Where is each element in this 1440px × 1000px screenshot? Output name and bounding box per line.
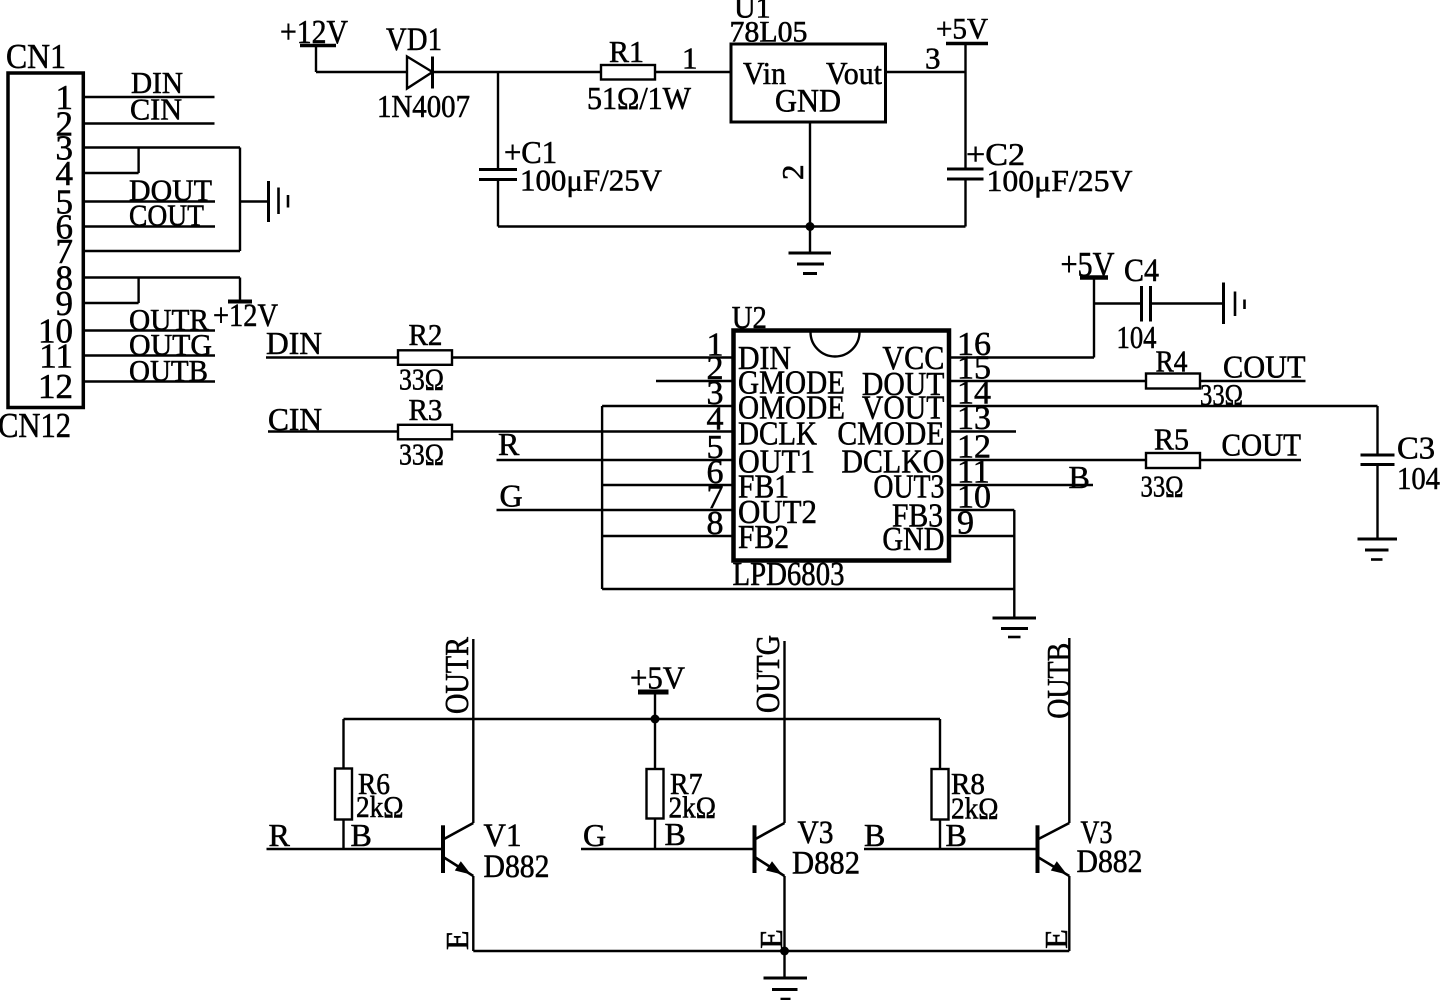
wire ground bus C1 to C2 [498,225,966,227]
node bus pins 3-6-8 [601,406,603,589]
power +12V at CN1 pin 8 [213,278,278,335]
CN1 pin 2 wire [83,122,215,124]
svg-text:D882: D882 [1077,844,1143,880]
wire +12V to diode anode [316,71,407,73]
resistor R5 [1146,453,1200,468]
resistor R7 [647,769,664,819]
wire rail to R6 [342,719,344,769]
resistor R1 [601,65,655,80]
wire rail to R7 [654,719,656,769]
wire U1 GND pin down [809,122,811,227]
CN1 pin 8 wire [83,276,240,278]
svg-text:E: E [753,929,789,949]
CN1 pin 6 wire [83,225,215,227]
CN1 pin 10 wire [83,329,215,331]
wire emitter bus [473,950,1069,952]
wire R to U2 pin 5 [497,459,734,461]
power +5V [936,13,988,73]
svg-text:1N4007: 1N4007 [377,88,470,124]
svg-text:OUTG: OUTG [750,635,787,713]
wire pins 9-10 down to bus [1013,510,1015,589]
transistor V2 [755,823,785,876]
U2 pin 16 wire [949,356,1094,358]
wire R5 to COUT [1200,459,1301,461]
resistor R2 [398,350,452,365]
wire OUTG collector [783,641,785,823]
svg-text:D882: D882 [792,846,860,882]
CN1 pin 4 wire [83,172,139,174]
resistor R8 [932,769,949,820]
svg-text:OUTB: OUTB [129,353,208,388]
svg-text:DIN: DIN [266,325,322,361]
svg-text:R3: R3 [409,392,443,427]
svg-text:2kΩ: 2kΩ [669,790,717,825]
wire R7 to base [654,819,656,850]
capacitor C3 [1361,455,1395,538]
transistor V3 [1038,823,1070,876]
wire R8 to base [939,820,941,850]
ground below U2 [993,589,1037,637]
svg-text:33Ω: 33Ω [399,437,444,472]
wire rail to R8 [939,719,941,769]
power +5V bottom [630,660,685,720]
capacitor C4 [1142,286,1224,322]
wire R input [267,848,444,850]
wire +5V rail [344,718,941,720]
CN1 pin 3 wire [83,146,240,148]
wire V1 emitter down [472,876,474,951]
wire diode cathode to R1 [433,71,602,73]
wire OUTB collector [1068,638,1070,823]
wire link pins 3-7 [239,148,241,252]
connector CN1 box [8,73,83,408]
svg-text:U2: U2 [732,299,767,335]
junction dot rail [651,715,660,724]
wire VOUT down to C3 [1376,406,1378,455]
svg-text:100μF/25V: 100μF/25V [987,163,1134,198]
svg-text:COUT: COUT [1223,349,1306,385]
wire R6 to base [342,820,344,850]
capacitor C2 [947,72,984,227]
CN1 pin 11 wire [83,354,215,356]
svg-text:R2: R2 [409,317,443,352]
wire V2 emitter down [783,876,785,951]
power +5V at VCC [1061,245,1115,358]
wire V3 emitter down [1068,876,1070,951]
CN1 pin 9 wire [83,302,139,304]
CN1 pin 5 wire [83,200,215,202]
wire B input [864,848,1038,850]
resistor R6 [335,769,352,820]
svg-text:B: B [864,817,885,853]
wire DIN to U2 pin 1 [266,356,734,358]
svg-text:G: G [500,478,523,514]
svg-text:OUTB: OUTB [1041,643,1078,719]
svg-text:GND: GND [882,521,944,558]
junction dot emitter [780,947,789,956]
U2 pin 6 wire [602,484,733,486]
svg-text:COUT: COUT [129,198,204,233]
svg-text:CIN: CIN [130,92,182,127]
U2 pin 15 wire [949,380,1146,382]
U2 pin 2 stub [656,380,734,382]
ground below C3 [1358,539,1398,560]
regulator U1 box [731,44,886,122]
svg-text:3: 3 [925,41,941,76]
U2 pin 8 wire [602,535,733,537]
svg-text:VD1: VD1 [386,22,442,58]
wire R1 to U1 Vin [655,71,731,73]
svg-text:CN12: CN12 [0,406,71,445]
svg-text:+5V: +5V [936,13,988,46]
svg-text:FB2: FB2 [738,519,789,556]
junction dot [806,222,815,231]
wire R4 to COUT [1200,380,1306,382]
svg-text:C4: C4 [1124,253,1159,289]
svg-text:R4: R4 [1156,344,1188,379]
wire +5V branch to C4 [1094,302,1142,304]
U2 pin 14 wire [949,405,1378,407]
svg-text:1: 1 [682,41,698,76]
ground right of CN1 [269,181,289,222]
svg-text:OUTR: OUTR [439,637,476,714]
transistor V1 [443,823,473,876]
svg-text:100μF/25V: 100μF/25V [520,163,663,198]
capacitor C1 [479,72,517,227]
svg-text:LPD6803: LPD6803 [733,556,845,593]
svg-text:2: 2 [775,165,810,181]
U2 notch [810,332,859,356]
wire Vout to +5V node [886,71,966,73]
wire CIN to U2 pin 4 [268,430,734,432]
wire G input [581,848,755,850]
svg-text:CN1: CN1 [6,37,66,76]
U2 pin 13 stub [949,430,1016,432]
svg-text:9: 9 [957,505,974,542]
svg-text:2kΩ: 2kΩ [951,791,999,826]
U2 pin 9 wire [949,535,1014,537]
svg-text:D882: D882 [484,849,550,885]
svg-text:E: E [439,930,475,950]
svg-text:104: 104 [1117,319,1157,355]
power +12V [280,14,348,72]
wire to CN1 ground [240,200,269,202]
svg-text:78L05: 78L05 [730,16,808,49]
svg-text:COUT: COUT [1222,427,1302,463]
ground bottom [764,951,808,999]
wire OUTR collector [472,639,474,823]
ground right of C4 [1224,283,1245,325]
svg-text:104: 104 [1397,460,1440,496]
svg-text:33Ω: 33Ω [1141,469,1184,504]
svg-text:12: 12 [38,367,73,406]
wire link pins 8-9 [137,278,139,304]
resistor R3 [398,425,452,440]
CN1 pin 7 wire [83,250,240,252]
diode VD1 [407,57,433,89]
svg-text:51Ω/1W: 51Ω/1W [587,80,692,116]
IC U2 box [734,331,950,561]
wire bottom bus to ground [602,588,1014,590]
CN1 pin 12 wire [83,380,215,382]
svg-text:R: R [498,426,520,462]
svg-text:R5: R5 [1154,422,1189,457]
U2 pin 11 wire [949,484,1093,486]
CN1 pin 1 wire [83,96,215,98]
svg-text:R1: R1 [609,34,644,69]
ground below U1 [789,227,832,274]
svg-text:E: E [1038,929,1074,949]
U2 pin 3 wire [602,405,733,407]
wire G to U2 pin 7 [497,509,734,511]
svg-text:B: B [351,817,372,853]
svg-text:G: G [583,817,606,853]
svg-text:B: B [1069,459,1090,495]
svg-text:R: R [269,817,291,853]
svg-text:8: 8 [707,505,724,542]
resistor R4 [1146,374,1200,389]
U2 pin 10 wire [949,509,1014,511]
wire link pins 3-4 [137,148,139,174]
U2 pin 12 wire [949,459,1146,461]
svg-text:GND: GND [775,84,841,120]
